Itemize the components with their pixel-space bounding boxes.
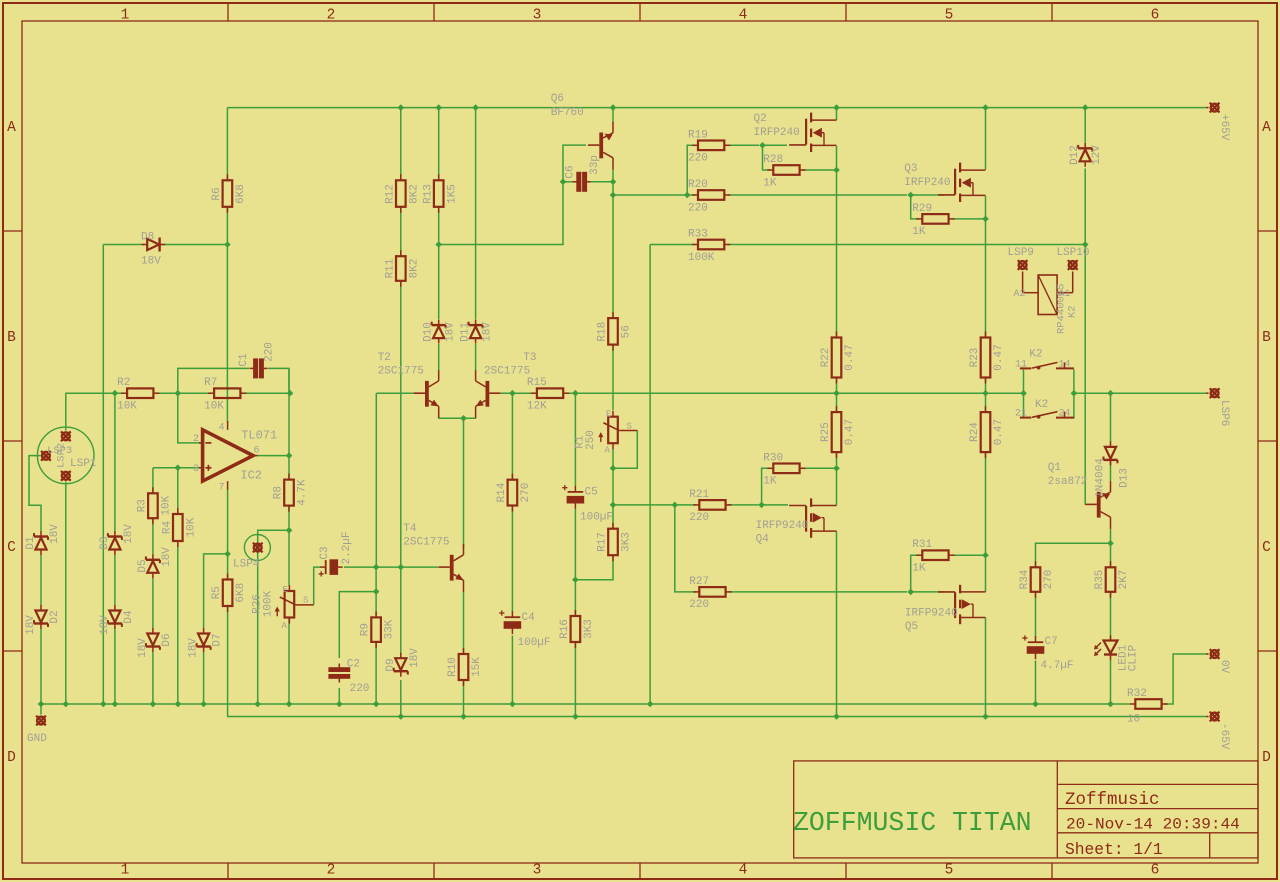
svg-text:R14: R14 [496, 482, 508, 502]
svg-text:C5: C5 [585, 487, 598, 499]
svg-text:3K3: 3K3 [583, 619, 595, 639]
svg-text:4: 4 [739, 863, 748, 879]
svg-text:220: 220 [688, 153, 708, 165]
svg-text:C3: C3 [319, 546, 331, 559]
svg-text:K2: K2 [1029, 348, 1042, 360]
svg-text:R5: R5 [211, 586, 223, 599]
svg-text:A: A [1262, 120, 1271, 136]
svg-text:K2: K2 [1067, 305, 1079, 318]
svg-text:R27: R27 [689, 576, 709, 588]
svg-text:20-Nov-14 20:39:44: 20-Nov-14 20:39:44 [1066, 816, 1240, 834]
svg-text:8K2: 8K2 [408, 259, 420, 279]
svg-text:R24: R24 [969, 422, 981, 442]
svg-text:TL071: TL071 [241, 428, 277, 442]
svg-text:100K: 100K [263, 590, 275, 617]
svg-text:IRFP9240: IRFP9240 [905, 608, 958, 620]
svg-text:24: 24 [1058, 409, 1070, 420]
svg-text:2K7: 2K7 [1118, 570, 1130, 590]
svg-text:R17: R17 [597, 532, 609, 552]
svg-text:C1: C1 [238, 353, 250, 367]
svg-text:S: S [303, 596, 308, 606]
svg-text:12V: 12V [1091, 145, 1103, 165]
svg-text:6K8: 6K8 [235, 583, 247, 603]
svg-text:4.7µF: 4.7µF [1041, 660, 1074, 672]
svg-text:T2: T2 [378, 352, 391, 364]
svg-text:LSP4: LSP4 [233, 559, 260, 571]
svg-text:2sa872: 2sa872 [1048, 476, 1088, 488]
svg-text:4.7K: 4.7K [297, 479, 309, 506]
svg-text:D5: D5 [137, 559, 149, 572]
svg-text:Q3: Q3 [904, 163, 917, 175]
svg-text:2SC1775: 2SC1775 [378, 365, 424, 377]
svg-text:Q5: Q5 [905, 621, 918, 633]
svg-text:18V: 18V [409, 648, 421, 668]
svg-text:R13: R13 [422, 184, 434, 204]
svg-text:LSP10: LSP10 [1057, 247, 1090, 259]
svg-text:R4: R4 [161, 521, 173, 535]
svg-text:B: B [7, 330, 16, 346]
svg-text:18V: 18V [141, 256, 161, 268]
svg-text:D4: D4 [123, 610, 135, 624]
svg-text:2.2µF: 2.2µF [341, 531, 353, 564]
svg-text:IRFP9240: IRFP9240 [756, 520, 809, 532]
svg-text:Zoffmusic: Zoffmusic [1065, 790, 1160, 810]
svg-text:C2: C2 [347, 659, 360, 671]
svg-text:11: 11 [1015, 360, 1027, 371]
svg-text:R33: R33 [688, 229, 708, 241]
svg-text:D12: D12 [1069, 145, 1081, 165]
svg-text:R9: R9 [360, 623, 372, 636]
svg-text:D9: D9 [385, 658, 397, 671]
svg-text:T3: T3 [523, 352, 536, 364]
svg-text:R19: R19 [688, 129, 708, 141]
svg-text:R28: R28 [763, 154, 783, 166]
svg-text:8K2: 8K2 [408, 184, 420, 204]
svg-text:6: 6 [1151, 8, 1160, 24]
svg-text:D: D [7, 750, 16, 766]
svg-text:10: 10 [1127, 714, 1140, 726]
svg-text:1K5: 1K5 [446, 184, 458, 204]
svg-text:C7: C7 [1045, 636, 1058, 648]
svg-text:R15: R15 [527, 377, 547, 389]
svg-text:D7: D7 [212, 633, 224, 646]
svg-text:18V: 18V [123, 524, 135, 544]
svg-text:R31: R31 [912, 539, 932, 551]
svg-text:18V: 18V [445, 322, 457, 342]
svg-text:R34: R34 [1019, 569, 1031, 589]
svg-text:18V: 18V [49, 524, 61, 544]
svg-text:D2: D2 [49, 610, 61, 623]
svg-text:ZOFFMUSIC TITAN: ZOFFMUSIC TITAN [793, 808, 1032, 838]
svg-text:D13: D13 [1119, 468, 1131, 488]
svg-text:18V: 18V [99, 615, 111, 635]
svg-text:D: D [1262, 750, 1271, 766]
svg-text:7: 7 [218, 483, 224, 494]
svg-text:C: C [1262, 540, 1271, 556]
svg-text:220: 220 [264, 342, 276, 362]
svg-text:1K: 1K [912, 563, 926, 575]
svg-text:0V: 0V [1218, 660, 1230, 674]
svg-text:220: 220 [688, 202, 708, 214]
svg-text:GND: GND [27, 733, 47, 745]
svg-text:1: 1 [121, 8, 130, 24]
svg-text:18V: 18V [161, 547, 173, 567]
svg-text:100K: 100K [688, 252, 715, 264]
svg-text:R23: R23 [969, 348, 981, 368]
svg-text:6K8: 6K8 [235, 184, 247, 204]
svg-text:R11: R11 [384, 258, 396, 278]
svg-text:100µF: 100µF [518, 637, 551, 649]
svg-text:IRFP240: IRFP240 [754, 127, 800, 139]
svg-text:K2: K2 [1035, 399, 1048, 411]
svg-text:R25: R25 [820, 422, 832, 442]
svg-text:C: C [7, 540, 16, 556]
svg-text:Q2: Q2 [754, 113, 767, 125]
svg-text:Q4: Q4 [756, 534, 770, 546]
svg-text:IRFP240: IRFP240 [904, 177, 950, 189]
svg-text:LSP6: LSP6 [1218, 400, 1230, 426]
svg-text:R21: R21 [689, 489, 709, 501]
svg-text:T4: T4 [403, 523, 417, 535]
svg-text:R32: R32 [1127, 688, 1147, 700]
svg-text:5: 5 [945, 8, 954, 24]
svg-text:A: A [605, 446, 611, 456]
svg-text:D10: D10 [423, 322, 435, 342]
svg-text:R30: R30 [763, 452, 783, 464]
svg-text:R35: R35 [1094, 570, 1106, 590]
svg-text:A: A [282, 621, 288, 631]
svg-text:220: 220 [689, 512, 709, 524]
svg-text:3K3: 3K3 [621, 532, 633, 552]
svg-text:10K: 10K [185, 517, 197, 537]
svg-text:3: 3 [533, 8, 542, 24]
svg-text:12K: 12K [527, 401, 547, 413]
svg-text:E: E [606, 410, 611, 420]
svg-text:R10: R10 [447, 657, 459, 677]
svg-text:14: 14 [1058, 360, 1070, 371]
svg-text:18V: 18V [25, 615, 37, 635]
svg-text:E: E [283, 585, 288, 595]
svg-text:220: 220 [689, 599, 709, 611]
svg-text:0.47: 0.47 [844, 419, 856, 445]
svg-text:2: 2 [193, 434, 199, 445]
svg-text:6: 6 [253, 446, 259, 457]
svg-text:D11: D11 [460, 322, 472, 342]
svg-text:+65V: +65V [1218, 114, 1230, 141]
svg-text:CLIP: CLIP [1128, 644, 1140, 671]
svg-text:BF760: BF760 [551, 107, 584, 119]
svg-text:D8: D8 [141, 232, 154, 244]
svg-text:R18: R18 [597, 322, 609, 342]
svg-text:LSP1: LSP1 [70, 458, 97, 470]
svg-text:LSP2: LSP2 [56, 443, 68, 468]
svg-text:3: 3 [533, 863, 542, 879]
svg-text:0.47: 0.47 [993, 344, 1005, 370]
svg-text:4: 4 [739, 8, 748, 24]
svg-text:Q1: Q1 [1048, 462, 1062, 474]
svg-text:0.47: 0.47 [844, 344, 856, 370]
svg-text:D6: D6 [161, 633, 173, 646]
svg-text:R3: R3 [137, 499, 149, 512]
svg-text:1K: 1K [763, 476, 777, 488]
svg-text:R20: R20 [688, 179, 708, 191]
svg-text:IC2: IC2 [240, 469, 262, 483]
svg-text:Sheet: 1/1: Sheet: 1/1 [1065, 840, 1163, 859]
svg-text:R16: R16 [559, 619, 571, 639]
svg-text:18V: 18V [137, 638, 149, 658]
svg-text:B: B [1262, 330, 1271, 346]
svg-text:A2: A2 [1014, 289, 1026, 300]
svg-text:Q6: Q6 [551, 93, 564, 105]
svg-text:10K: 10K [117, 401, 137, 413]
svg-text:33K: 33K [384, 619, 396, 639]
svg-text:220: 220 [350, 683, 370, 695]
svg-text:LSP9: LSP9 [1008, 247, 1034, 259]
svg-text:2SC1775: 2SC1775 [403, 537, 449, 549]
svg-text:270: 270 [520, 483, 532, 503]
svg-text:R7: R7 [204, 377, 217, 389]
svg-text:5: 5 [945, 863, 954, 879]
svg-text:0.47: 0.47 [993, 419, 1005, 445]
svg-text:R22: R22 [820, 348, 832, 368]
svg-text:15K: 15K [471, 657, 483, 677]
svg-text:1K: 1K [912, 226, 926, 238]
svg-text:6: 6 [1151, 863, 1160, 879]
svg-text:1K: 1K [763, 177, 777, 189]
svg-text:4: 4 [218, 423, 224, 434]
svg-text:C6: C6 [565, 165, 577, 178]
svg-text:2: 2 [327, 863, 336, 879]
svg-text:1: 1 [121, 863, 130, 879]
svg-text:270: 270 [1043, 570, 1055, 590]
svg-text:R12: R12 [384, 184, 396, 204]
svg-text:A: A [7, 120, 16, 136]
svg-text:18V: 18V [482, 322, 494, 342]
svg-text:D1: D1 [25, 536, 37, 550]
svg-text:10K: 10K [204, 401, 224, 413]
svg-text:S: S [627, 422, 632, 432]
svg-text:33p: 33p [589, 155, 601, 175]
svg-text:R2: R2 [117, 377, 130, 389]
svg-text:R29: R29 [912, 203, 932, 215]
svg-text:250: 250 [585, 430, 597, 450]
svg-text:C4: C4 [522, 612, 536, 624]
svg-text:3: 3 [193, 464, 199, 475]
svg-text:R6: R6 [211, 187, 223, 200]
svg-text:R8: R8 [273, 486, 285, 499]
svg-text:18V: 18V [188, 638, 200, 658]
svg-text:100µF: 100µF [580, 512, 613, 524]
svg-text:10K: 10K [161, 495, 173, 515]
svg-text:D3: D3 [99, 536, 111, 549]
svg-text:2SC1775: 2SC1775 [484, 365, 530, 377]
svg-text:1N4004: 1N4004 [1095, 458, 1107, 498]
svg-text:-65V: -65V [1218, 723, 1230, 750]
svg-text:2: 2 [327, 8, 336, 24]
svg-text:21: 21 [1015, 409, 1027, 420]
svg-text:56: 56 [621, 325, 633, 338]
